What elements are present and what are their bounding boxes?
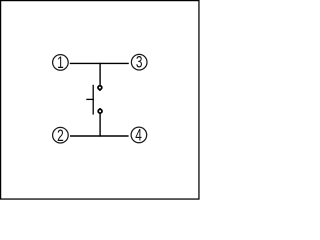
- svg-text:1: 1: [57, 54, 64, 72]
- svg-text:4: 4: [135, 127, 142, 145]
- svg-text:2: 2: [57, 127, 64, 145]
- svg-text:3: 3: [136, 54, 143, 72]
